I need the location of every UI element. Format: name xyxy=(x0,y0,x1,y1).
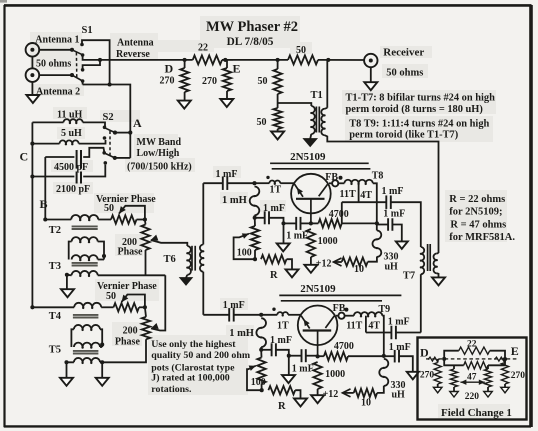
svg-text:5 uH: 5 uH xyxy=(61,128,82,139)
ground 270 field right xyxy=(501,387,510,393)
dashed bus field xyxy=(426,357,519,361)
label E xyxy=(233,62,241,76)
svg-text:1 mF: 1 mF xyxy=(382,186,404,197)
label Vernier Phase 1 xyxy=(96,194,156,205)
svg-text:50 ohms: 50 ohms xyxy=(386,68,423,79)
wire T9 center tap xyxy=(366,316,391,333)
capacitor 1 mF input 1 xyxy=(203,176,256,190)
transformer T5 secondary xyxy=(64,358,104,378)
svg-text:100: 100 xyxy=(251,377,266,388)
transformer T1 core xyxy=(316,107,319,133)
svg-text:270: 270 xyxy=(202,76,217,87)
wire tap rail amp1 xyxy=(342,202,386,223)
svg-text:1T: 1T xyxy=(277,320,289,331)
label 200 pot 1 xyxy=(122,237,137,248)
label node B xyxy=(40,197,48,211)
svg-text:200: 200 xyxy=(123,325,138,336)
wiper 200-1 xyxy=(151,235,188,246)
svg-text:1 mH: 1 mH xyxy=(229,328,254,339)
label 1 mF decouple amp1 xyxy=(383,209,405,220)
subtitle DL 7/8/05 xyxy=(227,36,274,48)
svg-text:T9: T9 xyxy=(379,304,391,315)
wire cap jumper xyxy=(43,157,47,222)
svg-text:DL 7/8/05: DL 7/8/05 xyxy=(227,36,274,48)
svg-text:1T: 1T xyxy=(270,185,282,196)
svg-text:Field Change 1: Field Change 1 xyxy=(441,407,512,419)
wire receiver to ground xyxy=(370,67,372,82)
label 330 amp2 xyxy=(391,380,406,391)
label S2 xyxy=(103,112,114,123)
wire S1 contact1 loop xyxy=(82,40,110,84)
svg-text:47: 47 xyxy=(467,372,477,382)
svg-text:B: B xyxy=(40,197,48,211)
winding 1T amp2 xyxy=(261,308,300,317)
wiper 50-1 xyxy=(119,206,147,222)
resistor 10 amp2 xyxy=(354,386,384,397)
svg-text:A: A xyxy=(133,116,142,130)
label Antenna Reverse xyxy=(116,38,154,60)
svg-text:4500 pF: 4500 pF xyxy=(54,162,88,173)
label 11T amp1 xyxy=(340,189,356,200)
svg-text:Vernier Phase: Vernier Phase xyxy=(97,281,157,292)
label 4500 pF xyxy=(54,162,88,173)
switch S1 gang link xyxy=(75,53,77,79)
label 47 field xyxy=(467,372,477,382)
svg-text:Use only the highest: Use only the highest xyxy=(151,339,236,350)
svg-text:E: E xyxy=(233,62,241,76)
ground T7 xyxy=(432,277,445,285)
svg-text:T5: T5 xyxy=(49,345,61,356)
svg-text:perm toroid (8 turns = 180 uH): perm toroid (8 turns = 180 uH) xyxy=(346,104,483,115)
label uH amp1 xyxy=(385,261,399,272)
label 270 at E xyxy=(202,76,217,87)
svg-text:1 mH: 1 mH xyxy=(222,195,247,206)
wiper 100-1 xyxy=(234,233,255,259)
note R line2 xyxy=(449,207,502,218)
resistor R amp2 xyxy=(268,386,300,399)
svg-text:4T: 4T xyxy=(368,321,380,332)
svg-text:1 mF: 1 mF xyxy=(383,209,405,220)
label 330 amp1 xyxy=(384,251,399,262)
ground receiver xyxy=(364,82,377,90)
svg-text:rotations.: rotations. xyxy=(151,384,192,395)
note pots line3 xyxy=(151,363,235,374)
label D xyxy=(165,61,174,75)
svg-text:uH: uH xyxy=(392,390,406,401)
wiper 100-2 xyxy=(247,366,262,391)
label 50 pot 2 xyxy=(106,291,116,302)
label node A xyxy=(133,116,142,130)
resistor 4700 amp2 xyxy=(316,352,386,360)
switch S1 arm 1 xyxy=(72,50,81,54)
label 200 pot 2 xyxy=(123,325,138,336)
label 50 series xyxy=(296,45,306,56)
label 1 mF output 2 xyxy=(388,316,410,327)
feed +12 amp1 xyxy=(334,258,342,266)
svg-text:R: R xyxy=(278,401,286,412)
label 10 amp2 xyxy=(361,397,371,408)
label 1 mH amp2 xyxy=(229,328,254,339)
label 1 mF decouple amp2 xyxy=(389,342,411,353)
note R line1 xyxy=(449,194,505,205)
inductor 11 uH xyxy=(32,119,105,126)
transformer T5 primary xyxy=(74,343,102,349)
wiper arrows 220 xyxy=(460,380,484,385)
wire 50 to receiver node xyxy=(318,58,364,62)
svg-text:Antenna: Antenna xyxy=(117,38,154,49)
svg-text:T7: T7 xyxy=(403,270,415,281)
inductor 1 mH amp2 xyxy=(256,318,266,352)
ground T5 right xyxy=(96,378,109,386)
svg-text:C: C xyxy=(20,150,29,164)
resistor 220 field left xyxy=(450,365,457,391)
svg-text:T1-T7: 8 bifilar turns #24 on: T1-T7: 8 bifilar turns #24 on high xyxy=(346,93,496,104)
switch S1 contacts xyxy=(80,43,84,83)
svg-text:1 mF: 1 mF xyxy=(270,335,292,346)
label E field xyxy=(511,344,519,358)
switch S2 contacts xyxy=(102,126,107,165)
switch S2 gang link xyxy=(109,131,111,157)
wire divider to T1 xyxy=(278,103,312,106)
svg-text:S2: S2 xyxy=(103,112,114,123)
label 1 mF bias-a amp1 xyxy=(263,203,285,214)
label Phase 1 xyxy=(118,247,144,258)
node E xyxy=(222,58,233,62)
label 270 at D xyxy=(160,76,175,87)
ground T1 primary xyxy=(304,139,317,146)
svg-text:J) rated at 100,000: J) rated at 100,000 xyxy=(151,373,229,384)
label 270 field left xyxy=(420,370,435,380)
transformer T6 secondary xyxy=(200,183,205,315)
note T8 T9 line1 xyxy=(349,119,489,130)
svg-text:R = 22 ohms: R = 22 ohms xyxy=(449,194,505,205)
label Antenna 1 xyxy=(35,35,79,46)
label 2N5109 amp1 xyxy=(290,151,326,163)
wire T8 center tap xyxy=(358,183,360,202)
label +12 amp2 xyxy=(323,389,339,400)
label 11T amp2 xyxy=(346,321,362,332)
transformer T3 primary xyxy=(72,255,104,261)
resistor 1000 amp2 xyxy=(313,362,321,395)
svg-text:4700: 4700 xyxy=(329,209,349,220)
connector Antenna 1 xyxy=(26,43,40,57)
label 50 ohms feed xyxy=(36,59,71,70)
svg-text:uH: uH xyxy=(385,261,399,272)
resistor 22 xyxy=(193,55,222,64)
svg-text:10: 10 xyxy=(361,397,371,408)
svg-text:quality 50 and 200 ohm: quality 50 and 200 ohm xyxy=(151,350,251,361)
svg-text:T3: T3 xyxy=(49,261,61,272)
label R amp2 xyxy=(278,401,286,412)
label 700/1500 kHz xyxy=(127,161,192,172)
capacitor 1 mF decouple amp2 xyxy=(384,350,413,372)
switch S1 arm 2 xyxy=(72,75,82,80)
ground at E resistor xyxy=(220,99,233,107)
inductor 1 mH amp1 xyxy=(250,187,260,220)
svg-text:270: 270 xyxy=(420,370,435,380)
potentiometer 100-1 xyxy=(251,218,259,261)
svg-text:for 2N5109;: for 2N5109; xyxy=(449,207,502,218)
resistor 270 field right xyxy=(501,359,508,387)
wire S1 bottom rail xyxy=(83,81,131,133)
svg-text:Phase: Phase xyxy=(118,247,144,258)
ground T3 secondary xyxy=(61,289,74,297)
svg-text:Phase: Phase xyxy=(115,336,141,347)
wire second row xyxy=(30,305,74,309)
label 100-2 xyxy=(251,377,266,388)
ground base junction amp2 xyxy=(282,356,295,383)
svg-text:1 mF: 1 mF xyxy=(388,316,410,327)
ferrite bead amp2 xyxy=(336,313,354,319)
resistor R amp1 xyxy=(261,255,292,269)
capacitor 1 mF output 1 xyxy=(386,195,421,247)
connector Antenna 2 xyxy=(26,68,40,82)
svg-text:T8: T8 xyxy=(372,170,384,181)
potentiometer 200-2 xyxy=(102,307,150,362)
ground T6 xyxy=(180,278,192,285)
transformer T6 primary xyxy=(186,246,191,278)
label 100-1 xyxy=(237,247,252,258)
transformer T3 secondary xyxy=(65,271,165,289)
svg-text:Receiver: Receiver xyxy=(383,46,424,58)
label 22 field xyxy=(467,339,477,349)
transformer T5 core xyxy=(73,351,99,354)
transformer T1 secondary xyxy=(321,60,438,253)
label 1000 amp2 xyxy=(325,369,345,380)
svg-text:50 ohms: 50 ohms xyxy=(36,59,71,70)
svg-text:Reverse: Reverse xyxy=(116,49,150,60)
label Phase 2 xyxy=(115,336,141,347)
transformer T4 primary xyxy=(74,303,113,309)
wire antenna1 to S1 pole xyxy=(39,48,74,52)
ground at D resistor xyxy=(178,101,191,109)
label 50 ohms receiver xyxy=(386,68,423,79)
svg-text:1000: 1000 xyxy=(318,236,338,247)
transistor Q1 2N5109 xyxy=(291,174,331,224)
note pots line1 xyxy=(151,339,236,350)
svg-text:R: R xyxy=(270,270,278,281)
svg-text:10: 10 xyxy=(354,264,364,275)
transformer T2 secondary xyxy=(69,237,106,259)
switch S2 arm upper xyxy=(106,128,118,134)
label 1 mF bias-a amp2 xyxy=(270,335,292,346)
svg-text:Antenna 1: Antenna 1 xyxy=(35,35,79,46)
svg-text:1 mF: 1 mF xyxy=(286,230,308,241)
wire S1 contact2 to output xyxy=(83,55,102,62)
label Low/High xyxy=(137,148,180,159)
label 50 pot 1 xyxy=(104,203,114,214)
svg-text:T6: T6 xyxy=(164,254,176,265)
label FB amp1 xyxy=(325,172,342,183)
wire main S1 to D xyxy=(100,58,193,62)
svg-text:270: 270 xyxy=(160,76,175,87)
label Field Change 1 xyxy=(441,407,512,419)
label uH amp2 xyxy=(392,390,406,401)
transformer T7 secondary xyxy=(433,253,438,277)
svg-text:1 mF: 1 mF xyxy=(216,169,238,180)
label 1 mF base amp2 xyxy=(292,363,314,374)
svg-text:MW Phaser #2: MW Phaser #2 xyxy=(206,19,298,35)
transformer T7 core xyxy=(428,244,431,271)
ground antenna xyxy=(26,95,39,103)
svg-text:11T: 11T xyxy=(340,189,356,200)
label Vernier Phase 2 xyxy=(97,281,157,292)
label 1 mF input 2 xyxy=(223,300,245,311)
wire antenna2 to S1 pole xyxy=(39,73,74,77)
wiper 50-2 xyxy=(122,295,147,310)
resistor 1000 amp1 xyxy=(307,229,315,265)
title MW Phaser #2 xyxy=(206,19,298,35)
svg-text:2100 pF: 2100 pF xyxy=(56,184,90,195)
capacitor 2100 pF xyxy=(30,165,105,184)
label 4700 amp2 xyxy=(334,341,354,352)
svg-text:D: D xyxy=(165,61,174,75)
wire left bus xyxy=(31,122,33,307)
wire S1 contact3 to output xyxy=(83,60,100,70)
label 1 mF base amp1 xyxy=(286,230,308,241)
resistor 220 field right xyxy=(484,365,491,391)
note T1-T7 line1 xyxy=(346,93,496,104)
svg-text:1000: 1000 xyxy=(325,369,345,380)
wire antenna2 to ground xyxy=(31,82,33,95)
transformer T2 core xyxy=(72,226,98,229)
svg-text:T4: T4 xyxy=(49,311,62,322)
label 220 field xyxy=(465,392,480,402)
label T2 xyxy=(49,225,61,236)
svg-text:2N5109: 2N5109 xyxy=(290,151,326,163)
resistor 50 lower divider xyxy=(273,108,281,132)
svg-text:+12: +12 xyxy=(323,389,339,400)
resistor 270 at E xyxy=(223,60,231,99)
label T4 xyxy=(49,311,62,322)
rule 2N5109 amp1 xyxy=(270,163,370,169)
label 1T amp2 xyxy=(277,320,289,331)
label Antenna 2 xyxy=(36,86,80,97)
ground 1000 amp1 xyxy=(304,265,317,273)
svg-text:1 mF: 1 mF xyxy=(223,300,245,311)
label 1 mF output 1 xyxy=(382,186,404,197)
transformer T4 core xyxy=(73,315,99,318)
label node C xyxy=(20,150,29,164)
svg-text:220: 220 xyxy=(465,392,480,402)
svg-text:Antenna 2: Antenna 2 xyxy=(36,86,80,97)
wire E to 50-divider xyxy=(233,58,288,62)
ground 220 right xyxy=(484,392,493,398)
capacitor 1 mF bias-a amp1 xyxy=(255,211,286,225)
label D field xyxy=(420,345,429,359)
resistor 270 field left xyxy=(434,359,441,387)
label R amp1 xyxy=(270,270,278,281)
svg-text:11T: 11T xyxy=(346,321,362,332)
label 4700 amp1 xyxy=(329,209,349,220)
svg-text:1 mF: 1 mF xyxy=(292,363,314,374)
svg-text:270: 270 xyxy=(511,371,526,381)
ground decouple amp1 xyxy=(396,241,408,249)
capacitor 1 mF base amp1 xyxy=(284,217,311,230)
label +12 amp1 xyxy=(316,258,332,269)
svg-text:R = 47 ohms: R = 47 ohms xyxy=(450,219,506,230)
transformer T6 core xyxy=(192,246,195,271)
transformer T8 winding xyxy=(344,180,376,231)
switch S2 arm lower xyxy=(105,154,116,160)
ground 220 left xyxy=(450,392,459,398)
label 1T amp1 xyxy=(270,185,282,196)
connector Receiver xyxy=(364,54,377,67)
label 50 upper xyxy=(258,76,268,87)
ground lower divider xyxy=(271,132,284,140)
note R line4 xyxy=(449,232,515,243)
resistor 4700 amp1 xyxy=(309,219,379,227)
label 270 field right xyxy=(511,371,526,381)
potentiometer 100-2 xyxy=(257,350,265,392)
label 1 mH amp1 xyxy=(222,195,247,206)
svg-text:50: 50 xyxy=(106,291,116,302)
label 11 uH xyxy=(57,110,83,121)
wire S2 pole2 to A xyxy=(115,133,131,158)
resistor 47 field xyxy=(444,359,505,369)
label T3 xyxy=(49,261,61,272)
capacitor 1 mF input 2 xyxy=(203,308,263,322)
ground 1000 amp2 xyxy=(311,395,324,403)
capacitor 1 mF decouple amp1 xyxy=(377,218,402,241)
label 2100 pF xyxy=(56,184,90,195)
resistor 50 upper divider xyxy=(273,60,281,108)
label T7 xyxy=(403,270,415,281)
transformer T2 primary xyxy=(71,215,111,221)
svg-text:MW Band: MW Band xyxy=(137,137,182,148)
capacitor 4500 pF xyxy=(45,148,104,169)
label 22 xyxy=(198,42,208,53)
inductor 330 uH amp2 xyxy=(379,359,388,386)
capacitor 1 mF bias-a amp2 xyxy=(261,343,291,357)
ferrite bead amp1 xyxy=(329,180,344,186)
svg-text:E: E xyxy=(511,344,519,358)
wire between antennas xyxy=(31,57,33,69)
feed +12 amp2 xyxy=(343,389,354,397)
note pots line4 xyxy=(151,373,229,384)
label 10 amp1 xyxy=(354,264,364,275)
svg-text:50: 50 xyxy=(257,117,267,128)
wire S2 pole1 to A xyxy=(115,131,132,135)
svg-text:S1: S1 xyxy=(82,25,93,36)
svg-text:T1: T1 xyxy=(311,90,323,101)
label 5 uH xyxy=(61,128,82,139)
svg-text:4700: 4700 xyxy=(334,341,354,352)
svg-text:100: 100 xyxy=(237,247,252,258)
ground R amp2 xyxy=(294,399,307,407)
field change box xyxy=(418,338,527,420)
label MW Band xyxy=(137,137,182,148)
wiper 200-2 xyxy=(151,275,165,330)
label S1 xyxy=(82,25,93,36)
label FB amp2 xyxy=(333,303,349,314)
inductor 330 uH amp1 xyxy=(372,231,381,257)
svg-text:Low/High: Low/High xyxy=(137,148,180,159)
svg-text:for MRF581A.: for MRF581A. xyxy=(449,232,515,243)
label 1000 amp1 xyxy=(318,236,338,247)
resistor 50 series xyxy=(288,55,318,64)
winding 1T amp1 xyxy=(255,176,294,185)
transformer T7 primary xyxy=(420,247,425,333)
transistor Q2 2N5109 xyxy=(298,306,338,357)
capacitor 1 mF output 2 xyxy=(391,326,420,340)
transformer T9 winding xyxy=(354,312,384,356)
svg-text:2N5109: 2N5109 xyxy=(300,283,336,295)
label Receiver xyxy=(383,46,424,58)
svg-text:T8 T9: 1:11:4 turns #24 on hi: T8 T9: 1:11:4 turns #24 on high xyxy=(349,119,489,130)
label 1 mF input 1 xyxy=(216,169,238,180)
svg-text:22: 22 xyxy=(198,42,208,53)
